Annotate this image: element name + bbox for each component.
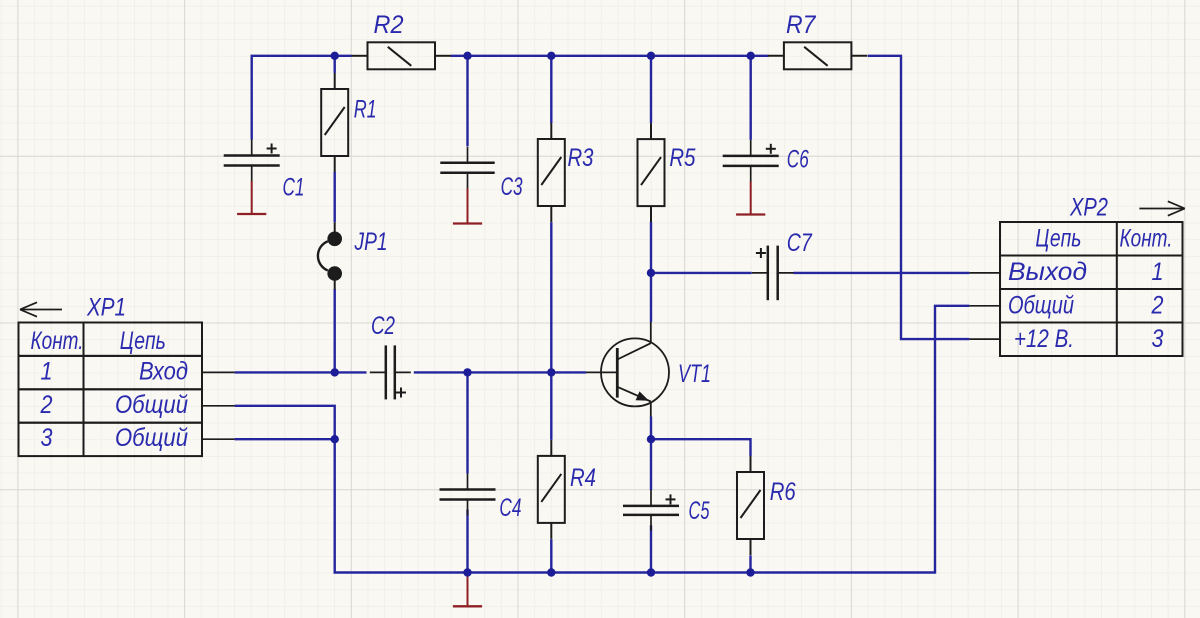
svg-text:Общий: Общий — [115, 391, 188, 419]
svg-text:2: 2 — [1151, 292, 1164, 320]
svg-text:C3: C3 — [501, 173, 523, 201]
svg-text:Общий: Общий — [115, 424, 188, 452]
svg-text:R7: R7 — [786, 11, 817, 39]
svg-text:XP1: XP1 — [86, 294, 126, 322]
svg-text:Общий: Общий — [1008, 292, 1074, 320]
svg-text:R1: R1 — [354, 95, 377, 123]
svg-text:R3: R3 — [568, 144, 594, 172]
svg-text:Вход: Вход — [139, 357, 188, 385]
svg-text:C7: C7 — [787, 229, 813, 257]
svg-text:C1: C1 — [283, 174, 305, 202]
svg-text:R6: R6 — [770, 478, 796, 506]
svg-text:R2: R2 — [374, 11, 404, 39]
svg-text:Конт.: Конт. — [31, 327, 84, 355]
svg-text:C2: C2 — [371, 312, 395, 340]
svg-text:Цепь: Цепь — [120, 327, 166, 355]
svg-text:2: 2 — [40, 391, 53, 419]
svg-text:C6: C6 — [787, 146, 809, 174]
svg-text:JP1: JP1 — [354, 228, 388, 256]
svg-text:3: 3 — [41, 424, 53, 452]
svg-text:+12 В.: +12 В. — [1014, 325, 1074, 353]
svg-text:C4: C4 — [499, 494, 521, 522]
svg-text:Конт.: Конт. — [1120, 225, 1173, 253]
svg-text:C5: C5 — [689, 497, 710, 525]
svg-text:Цепь: Цепь — [1035, 225, 1081, 253]
svg-text:VT1: VT1 — [678, 360, 711, 388]
svg-text:3: 3 — [1152, 325, 1164, 353]
svg-text:1: 1 — [1152, 258, 1164, 286]
svg-text:Выход: Выход — [1008, 258, 1087, 286]
svg-text:XP2: XP2 — [1069, 194, 1108, 222]
svg-text:1: 1 — [41, 357, 53, 385]
svg-text:R5: R5 — [669, 144, 695, 172]
svg-text:R4: R4 — [570, 464, 596, 492]
